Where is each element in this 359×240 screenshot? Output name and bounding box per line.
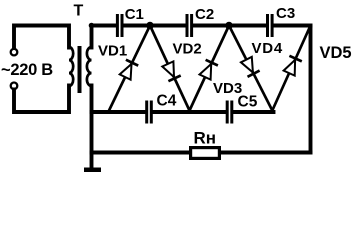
node A1 junction [146, 22, 154, 30]
wire: input top [14, 26, 69, 49]
wire: middle rail segment 3 [234, 110, 274, 114]
ground [84, 168, 101, 173]
wire: bottom rail right [220, 151, 311, 155]
wire: top rail segment 2 [124, 24, 185, 28]
transformer T primary winding [69, 47, 73, 86]
wire: right vertical [309, 26, 313, 153]
wire: top rail segment 1 [92, 24, 116, 28]
transformer T secondary winding [87, 47, 92, 86]
wire: bottom rail left [92, 151, 191, 155]
svg-text:VD2: VD2 [173, 41, 202, 58]
wire: secondary bottom lead [90, 86, 94, 168]
wire: secondary top lead [90, 26, 94, 48]
wire: input bottom [14, 86, 69, 113]
svg-text:VD5: VD5 [320, 44, 352, 62]
wire: middle rail segment 2 [153, 110, 225, 114]
diode VD1 [109, 26, 150, 111]
capacitor C2 [186, 14, 189, 37]
node secondary-top junction [89, 23, 95, 29]
capacitor C5 [226, 101, 229, 124]
wire: top rail segment 3 [194, 24, 266, 28]
resistor Rn [191, 148, 220, 159]
svg-text:C3: C3 [276, 5, 295, 22]
diode VD3 [190, 26, 230, 111]
svg-text:C4: C4 [157, 93, 177, 110]
diode VD5 [272, 26, 310, 111]
svg-text:C2: C2 [195, 6, 214, 23]
node A2 junction [225, 22, 233, 30]
svg-text:VD1: VD1 [98, 43, 127, 60]
diode VD2 [150, 26, 190, 111]
terminal X1 top circle [11, 49, 18, 56]
svg-text:T: T [74, 2, 84, 19]
svg-text:Rн: Rн [194, 129, 217, 148]
wire: top rail segment 4 [274, 24, 311, 28]
transformer core [78, 46, 82, 93]
terminal X2 bottom circle [11, 83, 18, 90]
svg-text:VD4: VD4 [252, 40, 284, 57]
wire: middle rail segment 1 [92, 110, 145, 114]
svg-text:C1: C1 [125, 6, 144, 23]
capacitor C1 [116, 14, 119, 37]
svg-text:~220 В: ~220 В [1, 61, 53, 79]
capacitor C4 [145, 101, 148, 124]
capacitor C3 [266, 14, 269, 37]
svg-text:VD3: VD3 [213, 80, 242, 97]
diode VD4 [229, 26, 272, 111]
